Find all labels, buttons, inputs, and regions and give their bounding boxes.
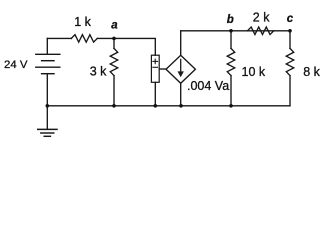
node c junction dot: [288, 29, 292, 33]
svg-text:24 V: 24 V: [4, 59, 28, 71]
wire diamond bottom to bottom rail: [180, 83, 182, 106]
wire 10 k to bottom rail: [230, 76, 232, 106]
wire node b down to 10 k: [230, 31, 232, 49]
battery V1 plates: [36, 54, 60, 73]
junction dot 3 k bottom: [112, 104, 116, 108]
wire box right side to diamond left corner: [159, 68, 166, 70]
junction dot battery bottom: [46, 104, 50, 108]
wire node a down to 3 k: [113, 38, 115, 48]
node b junction dot: [229, 29, 233, 33]
wire top-right rail corner above diamond to node b, c: [180, 31, 182, 56]
junction dot box bottom: [154, 104, 158, 108]
resistor R4 2 k: [247, 27, 273, 35]
wire from 1 k to corner above Va box: [97, 38, 155, 55]
wire node c down to 8 k: [289, 31, 291, 49]
wire box bottom to bottom rail: [154, 82, 156, 106]
ground symbol: [38, 106, 57, 137]
svg-text:b: b: [227, 14, 234, 26]
resistor R2 3 k: [110, 48, 118, 75]
svg-text:c: c: [287, 13, 294, 25]
current source arrow: [178, 59, 184, 77]
resistor R3 10 k: [227, 48, 235, 75]
svg-text:a: a: [111, 19, 118, 31]
wire 8 k to bottom rail corner: [289, 76, 291, 106]
resistor R1 1 k: [71, 35, 97, 43]
svg-text:2 k: 2 k: [253, 10, 270, 24]
wire bottom ground rail: [47, 105, 290, 107]
battery V1 24 V top lead: [46, 38, 48, 54]
dependent current source .004 Va diamond: [166, 55, 195, 83]
svg-text:3 k: 3 k: [90, 64, 107, 78]
battery V1 bottom lead: [46, 74, 48, 106]
svg-text:10 k: 10 k: [242, 65, 266, 79]
controlling element box with + - (Va): [151, 55, 159, 82]
wire top-left rail from battery to node a and box corner: [47, 37, 71, 39]
resistor R5 8 k: [286, 48, 294, 75]
svg-text:8 k: 8 k: [303, 65, 320, 79]
wire 3 k to bottom rail: [113, 76, 115, 106]
junction dot 10 k bottom: [229, 104, 233, 108]
svg-text:1 k: 1 k: [74, 15, 91, 29]
junction dot diamond bottom: [179, 104, 183, 108]
node a junction dot: [112, 37, 116, 41]
svg-text:.004 Va: .004 Va: [187, 79, 229, 93]
